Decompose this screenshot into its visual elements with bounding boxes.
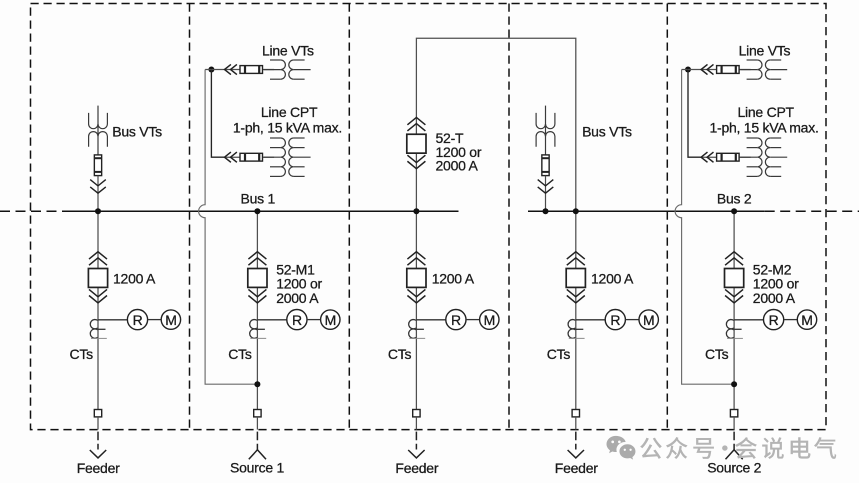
svg-text:1200 A: 1200 A [591, 271, 634, 287]
svg-text:1200 A: 1200 A [113, 271, 156, 287]
svg-text:Feeder: Feeder [555, 460, 598, 476]
svg-text:CTs: CTs [705, 346, 729, 362]
fuse line VT source 1 [240, 66, 263, 74]
breaker 1200 A feeder 1 [88, 252, 107, 303]
breaker 1200 A feeder 4 [566, 252, 585, 303]
relay R [287, 310, 307, 330]
bus continuation dashed left [0, 210, 68, 212]
junction VT riser to source 1 drop [254, 381, 260, 387]
CTs source 2 [726, 320, 743, 339]
dashed section divider 1 [189, 4, 191, 430]
drawout stab feeder 3 [413, 410, 420, 417]
meter M [161, 310, 180, 329]
svg-text:Feeder: Feeder [77, 460, 120, 476]
relay R [764, 310, 784, 330]
wire R to M [466, 319, 480, 321]
wire tap corner source 1 [205, 69, 211, 71]
feeder 1 arrow [90, 432, 106, 458]
junction feeder 1 on Bus 1 [95, 208, 101, 214]
fused disconnect chevrons line CPT source 2 [701, 152, 713, 162]
line CPT transformer source 1 [264, 138, 311, 176]
Bus 2 [528, 210, 765, 212]
relay/meter source 1 tap wire [257, 319, 286, 321]
fuse line CPT source 1 [240, 153, 263, 161]
Bus 1 [68, 210, 459, 212]
svg-text:M: M [484, 312, 495, 328]
wire stab to frame source 1 [256, 417, 258, 430]
watermark WeChat icon [607, 436, 636, 460]
CTs feeder 4 [568, 320, 585, 339]
breaker 52-T tie [407, 117, 426, 168]
bus VTs section 1 disconnect chevrons and wire to bus [90, 176, 106, 212]
wire feeder 4 drop [575, 211, 577, 409]
svg-text:M: M [165, 312, 176, 328]
junction source 1 on Bus 1 [254, 208, 260, 214]
junction bus VT on Bus 2 [543, 208, 549, 214]
svg-text:M: M [325, 312, 336, 328]
wire R to M [148, 319, 162, 321]
fused disconnect chevrons line VT source 2 [701, 64, 713, 74]
relay R [446, 310, 466, 330]
fused disconnect chevrons line VT source 1 [225, 64, 237, 74]
meter M [321, 310, 340, 329]
svg-text:2000 A: 2000 A [753, 290, 796, 306]
dashed section divider 4 [666, 4, 668, 430]
relay/meter feeder 1 tap wire [98, 319, 127, 321]
svg-text:Line VTs: Line VTs [739, 43, 791, 59]
wire line CPT tap source 2 [701, 156, 751, 158]
svg-text:R: R [451, 312, 461, 328]
CTs feeder 1 [90, 320, 107, 339]
junction source 2 on Bus 2 [731, 208, 737, 214]
fuse line VT source 2 [717, 66, 740, 74]
wire tap corner source 2 [682, 69, 688, 71]
breaker 1200 A feeder 3 [407, 252, 426, 303]
svg-text:Source 2: Source 2 [707, 460, 761, 476]
svg-text:2000 A: 2000 A [276, 290, 319, 306]
svg-text:2000 A: 2000 A [436, 158, 479, 174]
wire feeder 1 drop [97, 211, 99, 409]
svg-text:CTs: CTs [228, 346, 252, 362]
wire CPT riser source 1 (inner) [211, 70, 224, 158]
svg-text:M: M [801, 312, 812, 328]
svg-text:R: R [610, 312, 620, 328]
watermark text 公众号·会说电气 [640, 437, 836, 459]
svg-text:Line CPT: Line CPT [738, 104, 795, 120]
svg-text:Bus VTs: Bus VTs [582, 124, 632, 140]
junction tie/feeder 4 on Bus 2 [573, 208, 579, 214]
relay/meter source 2 tap wire [734, 319, 763, 321]
junction VT riser to source 2 drop [731, 381, 737, 387]
relay R [127, 310, 147, 330]
wire source 2 drop [733, 211, 735, 409]
wire tie riser and jumper 52-T [416, 38, 575, 211]
svg-text:Bus 1: Bus 1 [241, 190, 276, 206]
svg-text:CTs: CTs [70, 346, 94, 362]
bus VTs section 4 fuse [542, 155, 549, 176]
source 1 arrow [249, 432, 266, 460]
wire CPT riser source 2 (inner) [688, 70, 701, 158]
meter M [480, 310, 499, 329]
svg-text:1-ph, 15 kVA max.: 1-ph, 15 kVA max. [233, 120, 342, 136]
drawout stab feeder 1 [94, 410, 101, 417]
wire VT riser source 2 (outer) [675, 70, 734, 385]
wire stab to frame source 2 [733, 417, 735, 430]
meter M [797, 310, 816, 329]
svg-text:R: R [292, 312, 302, 328]
svg-text:Source 1: Source 1 [230, 460, 284, 476]
bus continuation dashed right [765, 210, 859, 212]
breaker 52-M2 [725, 252, 744, 303]
CTs source 1 [250, 320, 267, 339]
breaker 52-M1 [248, 252, 267, 303]
wire stab to frame feeder 3 [415, 417, 417, 430]
fused disconnect chevrons line CPT source 1 [225, 152, 237, 162]
junction line tap source 2 [685, 67, 691, 73]
svg-text:M: M [643, 312, 654, 328]
relay/meter feeder 3 tap wire [416, 319, 445, 321]
drawout stab feeder 4 [572, 410, 579, 417]
fuse line CPT source 2 [717, 153, 740, 161]
bus VTs section 1 fuse [94, 155, 101, 176]
svg-text:Bus 2: Bus 2 [717, 190, 752, 206]
meter M [639, 310, 658, 329]
wire line CPT tap source 1 [225, 156, 275, 158]
feeder 3 arrow [408, 432, 424, 458]
line VTs transformer source 1 [264, 60, 311, 79]
bus VTs section 4 disconnect chevrons and wire to bus [538, 176, 554, 212]
wire source 1 drop [256, 211, 258, 409]
svg-text:R: R [769, 312, 779, 328]
svg-text:R: R [133, 312, 143, 328]
svg-text:Line CPT: Line CPT [261, 104, 318, 120]
svg-text:1200 A: 1200 A [432, 271, 475, 287]
wire feeder 3 drop [415, 211, 417, 409]
wire R to M [625, 319, 639, 321]
feeder 4 arrow [568, 432, 584, 458]
drawout stab source 2 [730, 410, 737, 417]
source 2 arrow [726, 432, 743, 460]
relay/meter feeder 4 tap wire [576, 319, 605, 321]
line VTs transformer source 2 [740, 60, 787, 79]
wire R to M [784, 319, 798, 321]
svg-text:Feeder: Feeder [395, 460, 438, 476]
svg-text:Bus VTs: Bus VTs [112, 124, 162, 140]
svg-text:1-ph, 15 kVA max.: 1-ph, 15 kVA max. [710, 120, 819, 136]
junction line tap source 1 [208, 67, 214, 73]
wire line VT tap source 1 [211, 69, 274, 71]
svg-text:CTs: CTs [388, 346, 412, 362]
bus VTs section 4 [536, 106, 555, 155]
bus VTs section 1 [89, 106, 108, 155]
wire R to M [307, 319, 321, 321]
dashed section divider 2 [348, 4, 350, 430]
wire stab to frame feeder 1 [97, 417, 99, 430]
junction tie/feeder 3 on Bus 1 [413, 208, 419, 214]
dashed section divider 3 [508, 4, 510, 430]
svg-text:Line VTs: Line VTs [262, 43, 314, 59]
drawout stab source 1 [254, 410, 261, 417]
wire stab to frame feeder 4 [575, 417, 577, 430]
relay R [605, 310, 625, 330]
line CPT transformer source 2 [740, 138, 787, 176]
wire line VT tap source 2 [688, 69, 751, 71]
wire VT riser source 1 (outer) [199, 70, 258, 385]
svg-text:CTs: CTs [547, 346, 571, 362]
CTs feeder 3 [409, 320, 426, 339]
